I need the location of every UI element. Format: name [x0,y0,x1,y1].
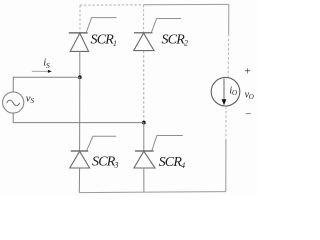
wire source bottom to node B [13,113,144,123]
wire right vertical (top rail to current source) [227,4,230,78]
wire source top to node A [13,77,80,92]
wire top rail [80,3,229,6]
svg-text:SCR4: SCR4 [159,155,186,170]
svg-text:vO: vO [245,89,254,101]
svg-text:−: − [244,109,251,121]
wire SCR4 to bottom rail [143,168,145,192]
node B (source bottom junction) [142,121,146,125]
wire current source to bottom rail [225,106,227,191]
SCR2 thyristor [134,19,181,51]
SCR4 thyristor [134,136,183,169]
SCR1 thyristor [69,18,117,52]
wire left leg top (rail to SCR1) [79,5,81,32]
svg-text:SCR1: SCR1 [91,33,118,48]
wire right leg top (rail to SCR2) [143,5,145,33]
svg-text:iS: iS [43,58,50,70]
svg-text:SCR3: SCR3 [92,154,119,169]
node A (source top junction) [78,75,82,79]
iS arrow [32,70,52,73]
wire SCR3 to bottom rail [78,168,80,193]
wire node B to SCR4 [143,123,145,151]
wire bottom rail [79,192,226,193]
wire SCR1 to node A [79,51,81,77]
current source iO [211,77,240,106]
ac source vs [3,92,24,113]
wire left leg middle (node A to SCR3) [79,77,81,151]
wire right leg middle (SCR2 to node B) [143,51,145,123]
svg-text:vS: vS [26,94,35,106]
svg-text:+: + [244,65,251,77]
svg-text:iO: iO [229,86,237,97]
SCR3 thyristor [70,136,116,168]
svg-text:SCR2: SCR2 [162,32,189,47]
